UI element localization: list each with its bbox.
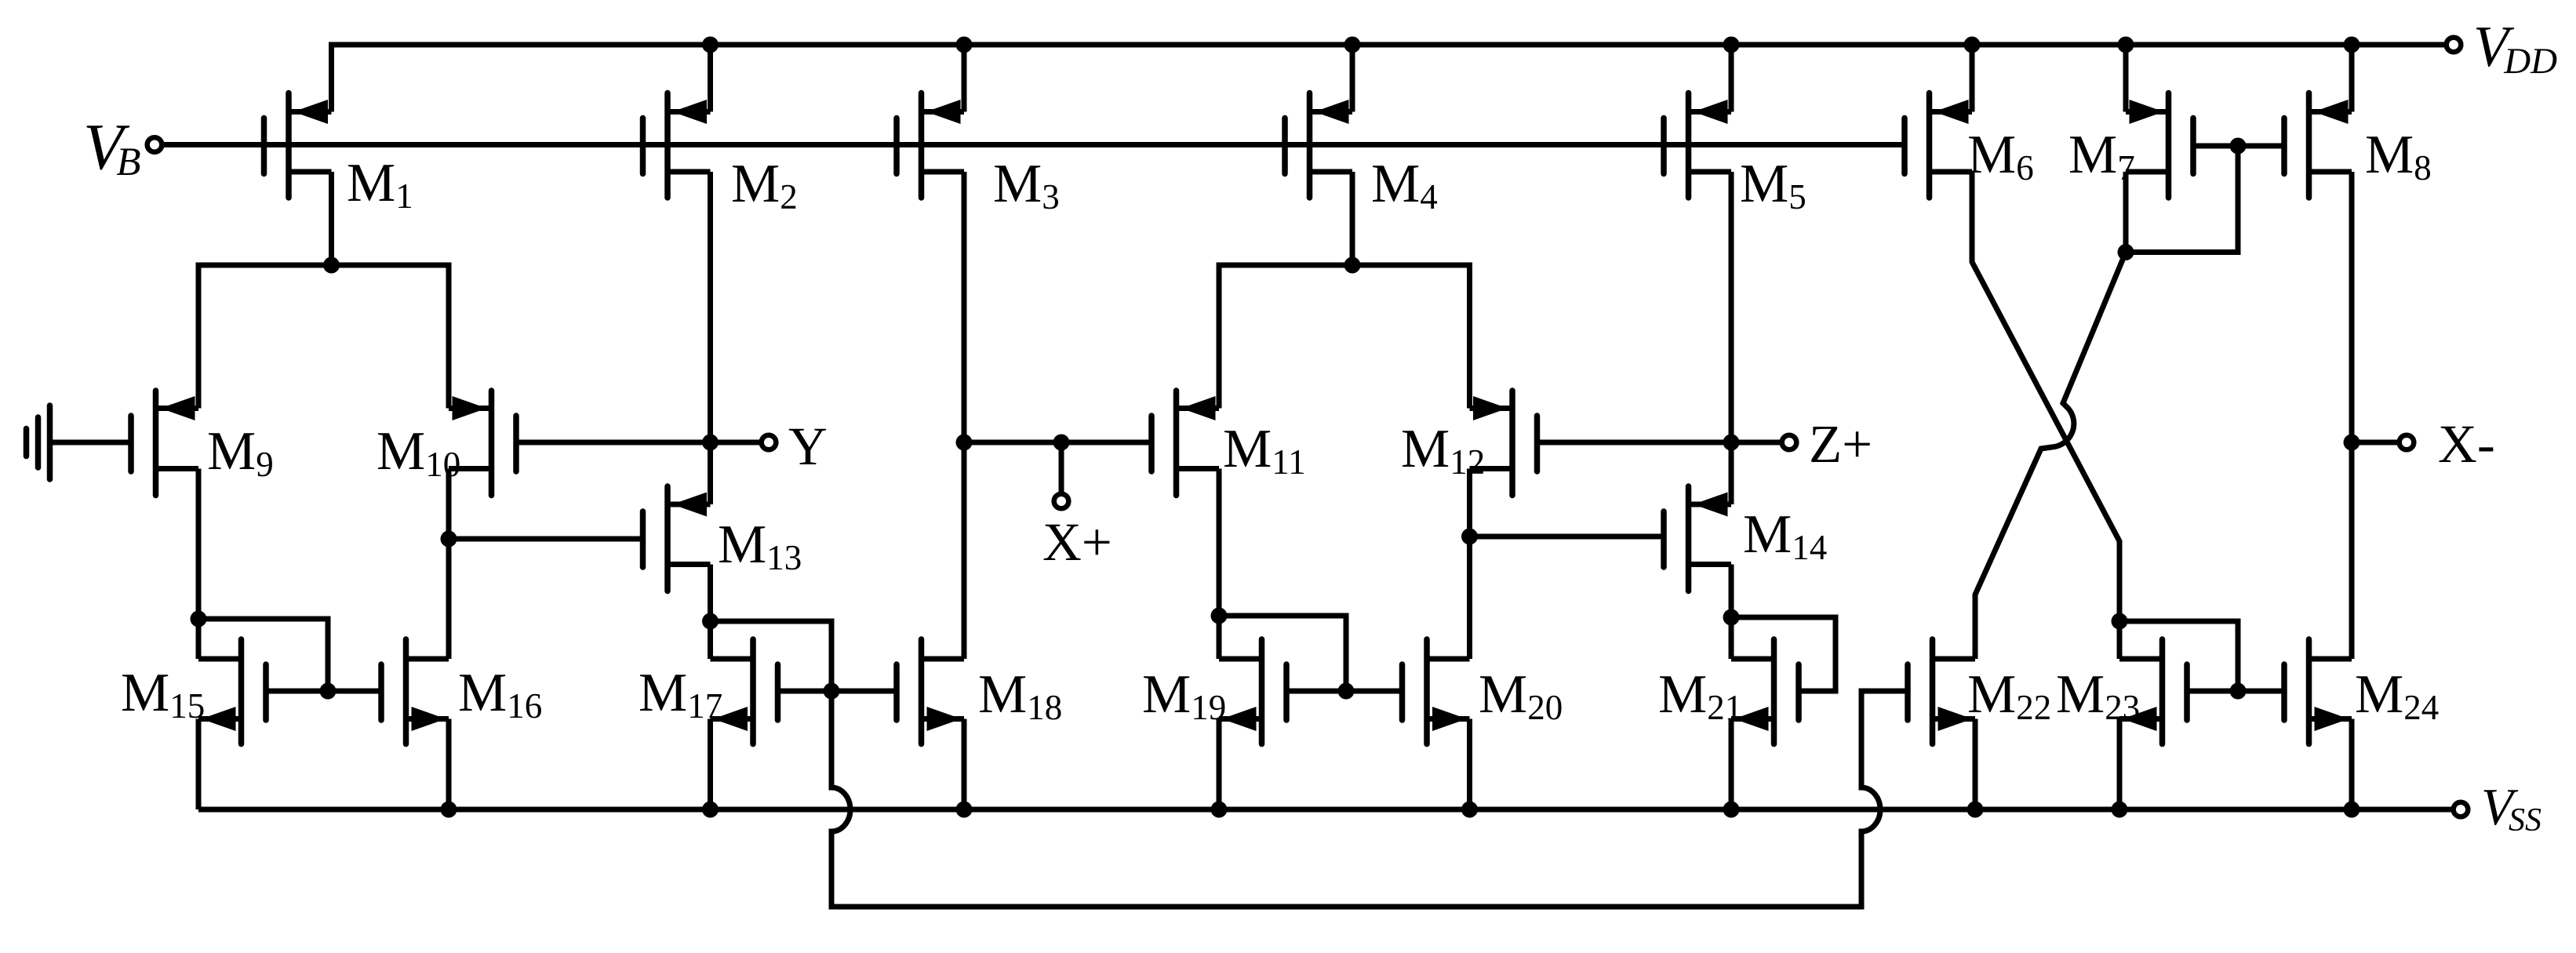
- node VSS junction x=1229: [956, 802, 973, 818]
- svg-text:M11: M11: [1223, 419, 1306, 482]
- svg-text:X-: X-: [2438, 414, 2495, 474]
- transistor M11: [1152, 391, 1306, 496]
- transistor M5: [1664, 93, 1806, 217]
- node Z+ terminal: [1782, 435, 1797, 450]
- wire M15/M16 gate line: [266, 689, 381, 694]
- wire VSS rail: [198, 807, 2452, 813]
- wire VDD source drop x=1229: [962, 45, 967, 112]
- node X+ terminal: [1054, 494, 1069, 509]
- node VSS junction x=2518: [1967, 802, 1984, 818]
- svg-text:M13: M13: [718, 515, 802, 577]
- wire M17 gate to M22 gate (long bottom route with hops over VSS): [831, 691, 1908, 907]
- svg-text:VSS: VSS: [2481, 778, 2541, 838]
- wire VDD rail with M1 source drop: [332, 45, 2445, 112]
- node junction M17/M18 gates: [824, 683, 840, 700]
- wire M23/M24 gate line: [2187, 689, 2284, 694]
- wire M2 drain through Y to M13 source: [708, 172, 713, 504]
- wire M19 source to VSS: [1217, 719, 1222, 810]
- svg-text:M18: M18: [978, 664, 1062, 727]
- node VB terminal: [147, 137, 162, 152]
- wire VDD source drop x=1724: [1350, 45, 1355, 112]
- node junction M23 drain: [2112, 613, 2128, 630]
- svg-text:M10: M10: [377, 421, 460, 484]
- wire M23 source to VSS: [2117, 719, 2123, 810]
- svg-text:M17: M17: [639, 663, 722, 726]
- wire M6 drain diagonal to M23 drain: [1972, 172, 2119, 659]
- svg-text:Z+: Z+: [1809, 414, 1872, 474]
- wire M13 gate connection: [449, 537, 643, 542]
- wire X- terminal stub: [2352, 440, 2398, 446]
- node VSS junction x=2207: [1723, 802, 1740, 818]
- svg-text:M19: M19: [1142, 664, 1226, 727]
- node junction M11 drain: [1211, 608, 1228, 624]
- wire X+ terminal drop: [1059, 442, 1064, 494]
- node VSS junction x=572: [441, 802, 457, 818]
- wire M10 drain to M16 drain: [446, 469, 452, 660]
- wire VDD source drop x=2998: [2349, 45, 2355, 112]
- wire branch to M15/M16 gates: [198, 619, 328, 691]
- node VSS junction x=905.5: [702, 802, 719, 818]
- transistor M15: [121, 639, 266, 744]
- wire M18 source to VSS: [962, 719, 967, 810]
- transistor M7: [2068, 93, 2193, 198]
- wire M12 gate line through Z+ node: [1537, 440, 1781, 446]
- transistor M21: [1658, 639, 1799, 744]
- wire M17 source to VSS: [708, 719, 713, 810]
- svg-text:M4: M4: [1371, 154, 1438, 216]
- node junction M7 gate: [2230, 138, 2247, 155]
- transistor M18: [897, 639, 1062, 744]
- node junction M7 drain: [2118, 244, 2134, 260]
- svg-text:VDD: VDD: [2473, 15, 2557, 82]
- transistor M16: [381, 639, 542, 744]
- svg-text:M9: M9: [207, 421, 274, 484]
- transistor M13: [643, 486, 802, 591]
- wire M17/M18 gate line: [778, 689, 897, 694]
- wire ground to M9 gate: [50, 440, 132, 446]
- svg-text:M12: M12: [1401, 419, 1485, 482]
- svg-text:M23: M23: [2056, 664, 2140, 727]
- transistor M17: [639, 639, 778, 744]
- svg-text:M21: M21: [1658, 664, 1742, 727]
- svg-text:M16: M16: [458, 663, 542, 726]
- svg-text:M1: M1: [347, 153, 413, 216]
- node junction M9 drain: [191, 611, 207, 627]
- ground symbol at M9 gate: [27, 406, 50, 479]
- wire M19/M20 gate line: [1286, 689, 1403, 694]
- svg-text:M14: M14: [1743, 504, 1827, 567]
- wire M1 drain to M9/M10 sources: [329, 172, 334, 265]
- svg-text:M15: M15: [121, 663, 205, 726]
- wire M21 source to VSS: [1729, 719, 1734, 810]
- svg-text:M8: M8: [2365, 125, 2432, 187]
- wire branch to M23/M24 gates: [2119, 621, 2238, 691]
- wire M8 drain through X- node to M24 drain: [2349, 172, 2355, 659]
- transistor M12: [1401, 391, 1537, 496]
- wire M14 drain to M21 drain: [1729, 565, 1734, 660]
- wire M15 source to VSS: [196, 719, 202, 810]
- node junction M12/M20 drains: [1461, 529, 1478, 545]
- svg-text:M6: M6: [1967, 125, 2034, 187]
- wire M7/M8 gate line: [2193, 144, 2284, 149]
- wire VDD source drop x=2514: [1970, 45, 1975, 112]
- transistor M8: [2284, 93, 2432, 198]
- wire Y node (M10 gate line): [516, 440, 760, 446]
- node junction X+: [1053, 435, 1070, 451]
- svg-text:Y: Y: [788, 416, 828, 476]
- node junction M14 drain: [1723, 609, 1740, 626]
- node VSS junction x=1554: [1211, 802, 1228, 818]
- wire M20 source to VSS: [1467, 719, 1472, 810]
- wire M24 source to VSS: [2349, 719, 2355, 810]
- wire M7 drain diagonal (with hop) to M22 drain: [1975, 172, 2126, 659]
- node junction M15/M16 gates: [320, 683, 337, 700]
- svg-text:M24: M24: [2355, 664, 2439, 727]
- node Y terminal: [762, 435, 777, 450]
- svg-text:X+: X+: [1042, 512, 1112, 572]
- svg-text:M3: M3: [993, 154, 1060, 216]
- wire M9 drain to M15 drain: [196, 469, 202, 660]
- node junction M3 drain: [956, 435, 973, 451]
- wire M16 source to VSS: [446, 719, 452, 810]
- transistor M22: [1908, 639, 2051, 744]
- transistor M23: [2056, 639, 2187, 744]
- wire M7 diode connection (drain to gate): [2126, 146, 2238, 253]
- node junction M1 drain: [323, 257, 340, 274]
- transistor M4: [1285, 93, 1438, 217]
- node VSS junction x=2702: [2112, 802, 2128, 818]
- wire VDD source drop x=2207: [1729, 45, 1734, 112]
- svg-text:M7: M7: [2068, 125, 2135, 187]
- node junction Y: [702, 435, 719, 451]
- svg-text:VB: VB: [83, 111, 140, 184]
- wire VDD source drop x=2710: [2123, 45, 2129, 112]
- transistor M9: [131, 391, 274, 496]
- wire VB gate line (gates of M1-M6): [162, 142, 1905, 147]
- node VSS terminal: [2454, 802, 2469, 817]
- wire X+ line to M11 gate: [964, 440, 1152, 446]
- node junction M10/M16 drains: [441, 531, 457, 547]
- svg-text:M22: M22: [1967, 664, 2051, 727]
- node VSS junction x=2998: [2344, 802, 2360, 818]
- node junction M23/M24 gates: [2230, 683, 2247, 700]
- wire branch to M17/M18 gates: [711, 621, 832, 691]
- transistor M14: [1664, 486, 1827, 591]
- transistor M10: [377, 391, 516, 496]
- transistor M1: [264, 93, 413, 216]
- wire M3 drain through X+ node down to M18 drain: [962, 172, 967, 659]
- transistor M3: [897, 93, 1060, 217]
- wire branch to M21 gate: [1731, 617, 1836, 691]
- wire M11 drain to M19 drain: [1217, 469, 1222, 660]
- node X- terminal: [2400, 435, 2414, 450]
- wire M14 gate connection: [1470, 534, 1665, 540]
- transistor M2: [643, 93, 798, 217]
- node junction X-: [2344, 435, 2360, 451]
- svg-text:M2: M2: [731, 154, 798, 216]
- node junction Z+: [1723, 435, 1740, 451]
- wire M12 drain to M20 drain: [1467, 469, 1472, 660]
- node junction M19/M20 gates: [1338, 683, 1355, 700]
- transistor M20: [1403, 639, 1563, 744]
- node VSS junction x=1873.5: [1461, 802, 1478, 818]
- transistor M24: [2284, 639, 2439, 744]
- node VDD terminal: [2447, 38, 2461, 53]
- transistor M6: [1905, 93, 2034, 198]
- node junction M13 drain: [702, 613, 719, 630]
- wire M4 drain to M11/M12 sources: [1350, 172, 1355, 265]
- svg-text:M5: M5: [1740, 154, 1806, 216]
- wire branch to M19/M20 gates: [1219, 616, 1346, 691]
- wire M22 source to VSS: [1973, 719, 1978, 810]
- wire M13 drain to M17 drain: [708, 565, 713, 660]
- wire VDD source drop x=905.5: [708, 45, 713, 112]
- node junction M4 drain: [1344, 257, 1361, 274]
- transistor M19: [1142, 639, 1286, 744]
- wire M5 drain through Z+ to M14 source: [1729, 172, 1734, 504]
- svg-text:M20: M20: [1479, 664, 1563, 727]
